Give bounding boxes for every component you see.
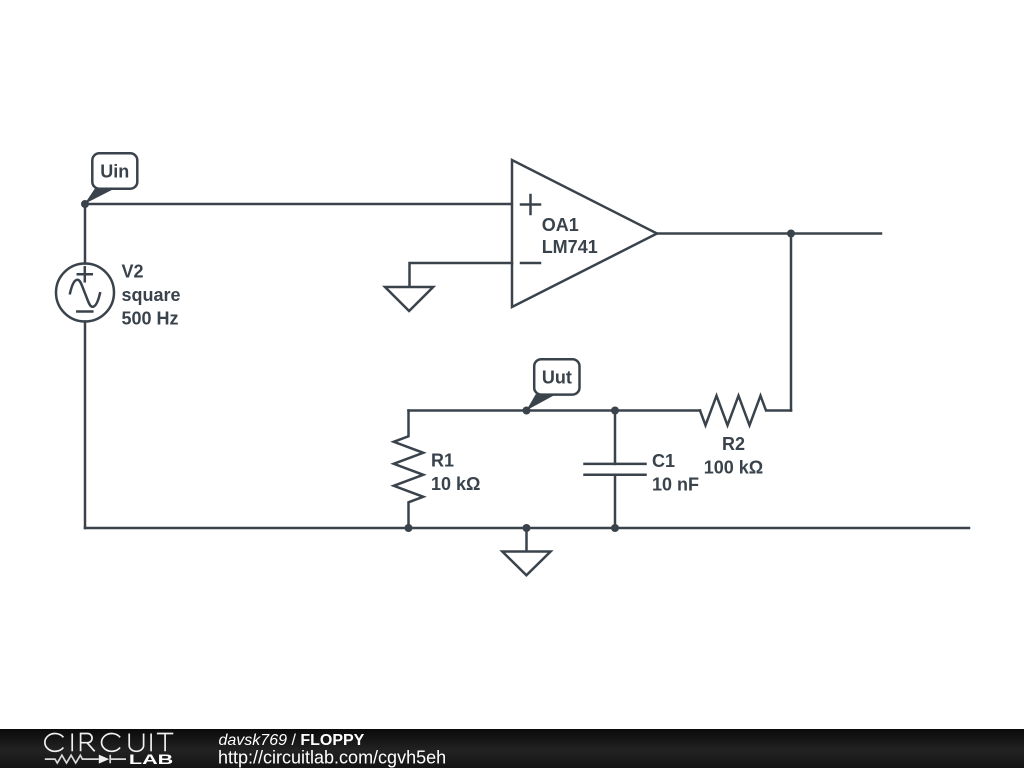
CircuitLab logo resistor-diode line	[45, 755, 126, 764]
resistor R2	[700, 396, 791, 426]
wire op-amp output	[657, 232, 881, 235]
node junction at op-amp output	[787, 230, 795, 238]
svg-text:http://circuitlab.com/cgvh5eh: http://circuitlab.com/cgvh5eh	[218, 748, 446, 768]
svg-text:OA1: OA1	[542, 215, 579, 235]
CircuitLab logo wordmark CIRCUIT	[45, 734, 173, 752]
svg-text:Uut: Uut	[542, 367, 572, 387]
capacitor C1	[585, 411, 646, 529]
label OA1 LM741	[542, 215, 598, 257]
svg-text:V2: V2	[122, 261, 144, 281]
svg-text:10 nF: 10 nF	[652, 475, 699, 495]
node label Uut	[526, 359, 579, 410]
label R1 10 kOhm	[431, 451, 480, 495]
wire Uut node rail	[409, 409, 701, 412]
op-amp OA1	[512, 160, 657, 307]
svg-text:LM741: LM741	[542, 237, 598, 257]
label R2 100 kOhm	[704, 434, 763, 478]
svg-text:R2: R2	[722, 434, 745, 454]
wire Uin node down to V2 positive terminal	[84, 204, 87, 264]
node junction C1 top	[611, 407, 619, 415]
node junction Uut on rail	[523, 407, 531, 415]
svg-text:C1: C1	[652, 451, 675, 471]
svg-text:LAB: LAB	[129, 751, 173, 767]
resistor R1	[394, 411, 424, 529]
svg-text:davsk769 / FLOPPY: davsk769 / FLOPPY	[219, 732, 365, 749]
wire output node down to R2	[790, 234, 793, 411]
svg-text:square: square	[122, 285, 181, 305]
node junction bottom ground	[523, 524, 531, 532]
svg-text:100 kΩ: 100 kΩ	[704, 458, 763, 478]
ground at op-amp inverting input	[385, 287, 433, 311]
wire op-amp inverting input to ground	[410, 263, 513, 287]
label V2 square 500 Hz	[122, 261, 181, 328]
node label Uin	[85, 153, 138, 204]
ground at bottom rail	[502, 552, 550, 576]
wire V2 negative terminal to bottom rail	[84, 322, 87, 529]
node junction R1 bottom	[405, 524, 413, 532]
svg-text:10 kΩ: 10 kΩ	[431, 474, 480, 494]
svg-text:500 Hz: 500 Hz	[122, 308, 179, 328]
voltage source V2	[56, 264, 114, 322]
footer bar	[0, 729, 1024, 768]
node junction Uin	[81, 200, 89, 208]
svg-text:R1: R1	[431, 451, 454, 471]
wire bottom ground rail	[85, 527, 969, 530]
wire bottom rail to ground stem	[525, 528, 528, 552]
wire Uin node to op-amp non-inverting input	[85, 203, 512, 206]
svg-text:Uin: Uin	[100, 162, 129, 182]
node junction C1 bottom	[611, 524, 619, 532]
label C1 10 nF	[652, 451, 699, 495]
